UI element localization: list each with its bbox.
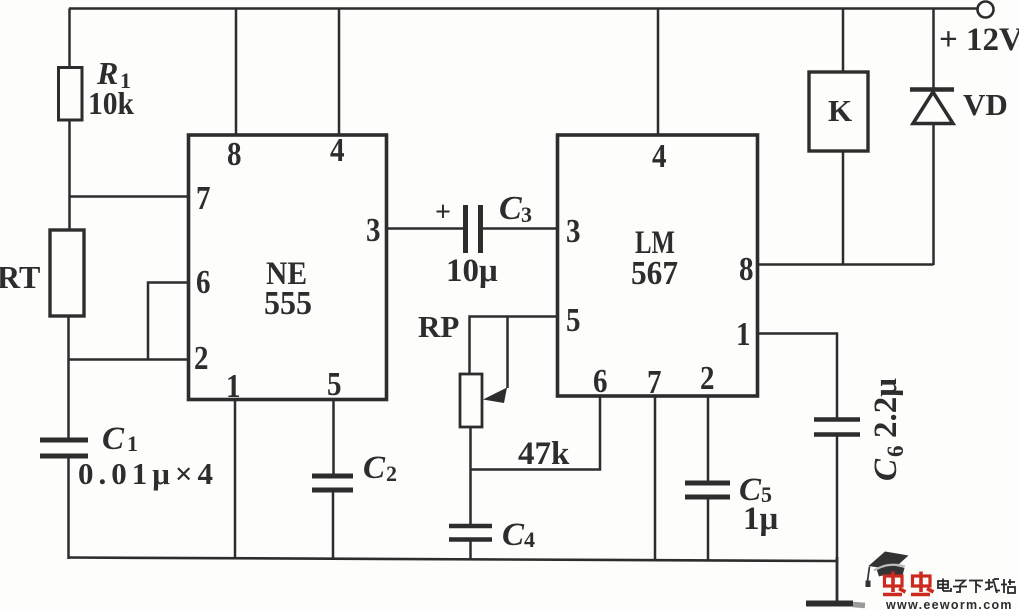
wire: NE555 pin 6 jog to pin 2 net	[148, 283, 188, 360]
wire: C4 to ground rail	[469, 541, 472, 561]
label: 10k	[88, 85, 134, 121]
pin 1 label LM567	[736, 316, 751, 353]
svg-text:2: 2	[700, 360, 715, 397]
svg-text:5: 5	[327, 366, 342, 403]
svg-text:3: 3	[566, 213, 581, 250]
svg-text:1μ: 1μ	[743, 501, 779, 537]
pin 1 label NE555	[226, 368, 241, 405]
label: RP	[418, 309, 459, 344]
label: C1	[102, 421, 138, 457]
svg-text:8: 8	[227, 136, 242, 173]
label: C5	[739, 472, 772, 508]
svg-text:6: 6	[196, 264, 211, 301]
wire: LM567 pin 1 to C6	[758, 334, 837, 420]
wire: top rail to LM567 pin 4	[657, 9, 660, 135]
pin 4 label NE555	[330, 132, 345, 169]
wire: C5 to ground rail	[707, 498, 710, 561]
wire: LM567 pin 7 to ground rail	[654, 396, 657, 561]
capacitor C5	[685, 481, 730, 486]
wire: 47k node to LM567 pin 6	[471, 396, 601, 470]
wire: top rail to diode VD	[932, 9, 935, 90]
label: RT	[0, 259, 40, 295]
wire: +12V top supply rail	[69, 7, 978, 10]
diode VD (triangle)	[913, 92, 953, 124]
wire: C2 to ground rail	[332, 491, 335, 560]
svg-text:7: 7	[196, 180, 211, 217]
label: LM 567	[631, 225, 678, 292]
wire: top rail to NE555 pin 4	[338, 9, 341, 135]
pin 2 label LM567	[700, 360, 715, 397]
wire: top rail to relay K	[842, 9, 845, 73]
pin 8 label NE555	[227, 136, 242, 173]
pin 7 label NE555	[196, 180, 211, 217]
svg-text:10μ: 10μ	[446, 253, 498, 289]
wire: node to NE555 pin 2	[68, 358, 189, 361]
relay K body	[809, 72, 868, 151]
svg-text:4: 4	[652, 138, 667, 175]
svg-text:6: 6	[883, 446, 908, 458]
svg-text:C: C	[499, 190, 522, 227]
pin 6 label LM567	[593, 363, 608, 400]
svg-text:4: 4	[330, 132, 345, 169]
svg-text:2: 2	[386, 461, 397, 486]
svg-text:567: 567	[631, 255, 678, 292]
svg-text:C: C	[868, 458, 904, 481]
ground bar	[806, 601, 853, 607]
wire: bottom ground rail	[68, 558, 838, 562]
wire: LM567 pin 8 to relay/diode net	[758, 263, 934, 266]
pin 7 label LM567	[647, 364, 662, 401]
wire: LM567 pin 5 to RP top	[470, 317, 559, 375]
capacitor C6	[814, 417, 860, 422]
svg-text:+: +	[435, 197, 451, 228]
svg-text:RT: RT	[0, 259, 40, 295]
diode VD (cathode bar)	[910, 87, 954, 92]
svg-text:0.01μ×4: 0.01μ×4	[78, 456, 218, 491]
watermark: graduation cap icon	[866, 552, 909, 588]
wire: diode VD to pin 8 net	[932, 124, 935, 265]
wire: relay K to pin 8 net	[842, 151, 845, 265]
label: 1u	[743, 501, 779, 537]
wire: R1 to RT	[68, 119, 71, 231]
svg-text:10k: 10k	[88, 85, 134, 121]
wire: RP wiper arm	[506, 317, 509, 389]
label: + 12V	[939, 22, 1019, 58]
label: + polarity of C3	[435, 197, 451, 228]
wire: top rail to R1	[68, 9, 71, 69]
wire: RT to C1	[67, 316, 70, 438]
watermark: text dianzi xiazaizhan	[938, 579, 1015, 594]
svg-text:1: 1	[127, 431, 138, 456]
wire: C3 to LM567 pin 3	[483, 227, 558, 230]
svg-text:3: 3	[366, 212, 381, 249]
watermark: red text chong chong	[883, 572, 934, 595]
capacitor C3 (electrolytic)	[463, 205, 468, 253]
svg-text:C: C	[502, 517, 525, 553]
svg-text:47k: 47k	[518, 436, 570, 472]
capacitor C2	[312, 474, 353, 479]
wire: ground stub below rail	[836, 557, 839, 602]
resistor RT (thermistor)	[50, 230, 84, 316]
svg-text:1: 1	[736, 316, 751, 353]
svg-text:6: 6	[593, 363, 608, 400]
pin 5 label NE555	[327, 366, 342, 403]
wire: NE555 pin 3 to C3	[387, 227, 464, 230]
label: C6 2.2u (rotated)	[868, 378, 908, 481]
svg-text:C: C	[102, 421, 125, 457]
pin 3 label NE555	[366, 212, 381, 249]
svg-text:RP: RP	[418, 309, 459, 344]
wire: C1 to ground rail	[67, 457, 70, 559]
pin 2 label NE555	[194, 340, 209, 377]
label: R1	[96, 55, 131, 93]
label: NE 555	[264, 256, 312, 322]
label: C2	[363, 450, 397, 486]
svg-text:www.eeworm.com: www.eeworm.com	[885, 598, 1013, 610]
label: VD	[963, 87, 1008, 122]
svg-text:4: 4	[524, 527, 535, 552]
svg-text:8: 8	[739, 251, 754, 288]
label: K	[828, 93, 852, 128]
svg-text:2: 2	[194, 340, 209, 377]
wire: RP bottom to C4	[469, 427, 472, 527]
svg-text:C: C	[363, 450, 386, 486]
svg-text:2.2μ: 2.2μ	[868, 378, 904, 438]
pin 8 label LM567	[739, 251, 754, 288]
label: C3	[499, 190, 532, 227]
label: 47k	[518, 436, 570, 472]
svg-text:555: 555	[264, 285, 312, 322]
wire: C6 to ground rail	[836, 436, 839, 561]
svg-text:+ 12V: + 12V	[939, 22, 1019, 58]
capacitor C1	[40, 438, 88, 443]
wire: LM567 pin 2 to C5	[707, 396, 710, 483]
wire: top rail to NE555 pin 8	[235, 9, 238, 135]
IC U1 NE555 body	[189, 135, 387, 400]
node: +12V supply terminal	[978, 2, 994, 18]
svg-text:5: 5	[566, 302, 581, 339]
svg-text:3: 3	[521, 202, 532, 227]
label: C4	[502, 517, 535, 553]
svg-text:7: 7	[647, 364, 662, 401]
svg-text:1: 1	[226, 368, 241, 405]
resistor R1	[59, 68, 83, 121]
pin 6 label NE555	[196, 264, 211, 301]
potentiometer RP	[460, 374, 482, 427]
label: 10u	[446, 253, 498, 289]
svg-text:K: K	[828, 93, 852, 128]
wire: NE555 pin 5 to C2	[332, 399, 335, 476]
wire: NE555 pin 1 to ground rail	[234, 399, 237, 560]
capacitor C4	[449, 524, 492, 529]
svg-text:VD: VD	[963, 87, 1008, 122]
IC U2 LM567 body	[558, 135, 758, 396]
label: 0.01u x4	[78, 456, 218, 491]
watermark: www.eeworm.com	[885, 598, 1013, 610]
pin 5 label LM567	[566, 302, 581, 339]
wire: node to NE555 pin 7	[69, 195, 189, 198]
pin 3 label LM567	[566, 213, 581, 250]
pin 4 label LM567	[652, 138, 667, 175]
